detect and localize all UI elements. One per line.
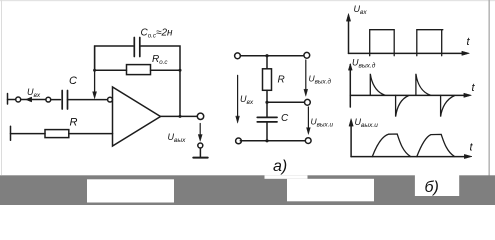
svg-text:C: C [69,75,77,87]
plot3 t-axis with arrow [351,156,466,158]
input terminal bar (bottom-left) [10,126,12,140]
node: input terminal circle [16,97,21,102]
junction dot top [265,54,268,57]
plot1 t-axis with arrow [349,52,465,54]
wire [11,133,46,135]
bottom grey bar [0,175,495,205]
node: second terminal circle [46,97,51,102]
junction dot bottom [265,139,268,142]
node: middle-right terminal [305,99,311,105]
capacitor C (input) [61,91,63,110]
page right edge line [489,0,490,176]
svg-text:Cо.с≈2н: Cо.с≈2н [141,28,174,40]
wire below C [266,123,268,141]
node: top-left terminal [235,53,241,59]
op-amp U1 triangle [113,87,161,146]
node: output terminal circle [197,113,203,119]
wire below R [266,90,268,116]
capacitor Co.c plates [133,38,135,57]
node: lower terminal circle [198,143,203,148]
page top edge line [0,0,495,1]
Uвх arrow (left side) [237,75,239,117]
white cutout B [287,179,374,202]
node: top-right terminal [304,52,310,58]
wire to middle-right terminal [267,101,304,103]
bottom wire [240,140,305,142]
plot1 pulse 2 [417,30,443,56]
plot1 y-axis with arrow [348,17,350,53]
svg-text:R: R [70,117,78,129]
wire to op-amp input [68,99,108,101]
white cutout C [415,175,459,196]
plot3 integrated hump 1 [372,134,410,157]
Uвых.д arrow (right side upper) [305,60,307,91]
resistor R (vertical) [263,69,272,91]
feedback capacitor Co.c top branch wire [95,46,180,70]
plot3 integrated hump 2 [417,134,455,156]
resistor R [45,130,69,138]
junction dot middle [265,101,268,104]
svg-text:б): б) [425,179,439,196]
junction dot left [93,69,96,72]
plot1 pulse 1 [370,30,395,56]
plot2 negative spike 1 [396,95,409,116]
wire to ground [199,148,201,157]
wire with Uвх arrow (pointing left) [21,99,46,101]
wire to op-amp [69,133,113,135]
Uвых arrow down [199,124,201,136]
op-amp inverting input bubble [108,97,113,102]
svg-text:а): а) [273,158,287,175]
node: bottom-right terminal [305,138,311,144]
svg-text:R: R [278,75,285,86]
node: bottom-left terminal [236,138,242,144]
plot3 y-axis with arrow [350,122,352,157]
plot2 positive spike 1 [370,74,385,96]
plot2 y-axis [349,65,351,108]
ground [193,157,207,159]
Uвых.и arrow (right side lower) [307,107,309,129]
plot2 positive spike 2 [416,74,431,96]
capacitor C plates (horizontal) [257,116,277,118]
white cutout A [87,179,174,202]
wire down to R [266,56,268,69]
top wire [240,55,303,57]
output wire [161,115,198,117]
resistor Ro.c [127,65,151,75]
feedback resistor Ro.c branch wire [95,69,180,71]
plot2 t-axis with arrow [350,94,466,96]
node A : summing junction (feedback arrow down) [94,46,96,94]
junction dot right [179,69,182,72]
wire: feedback right side down to output [179,70,181,116]
wire [8,99,16,101]
plot2 negative spike 2 [441,95,455,116]
white step notch [265,175,308,179]
svg-text:C: C [281,113,289,124]
junction dot output [179,115,182,118]
wire [51,99,61,101]
input terminal bar (top-left) [7,94,9,105]
page left edge line [1,0,2,175]
